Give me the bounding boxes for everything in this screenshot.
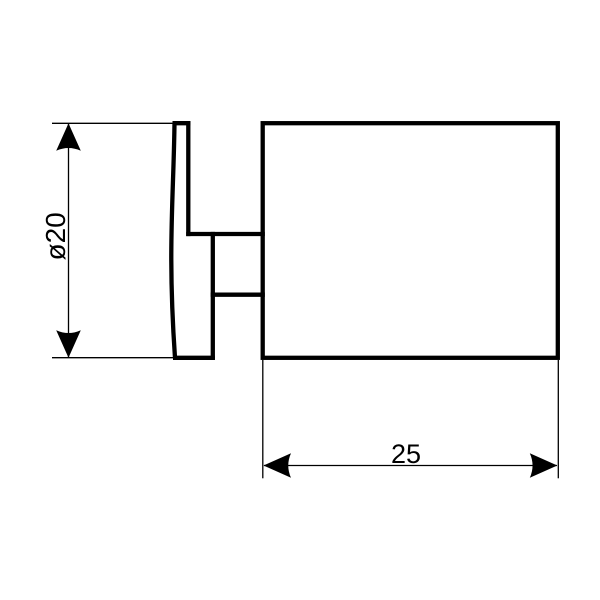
arrowhead right (25 dimension) (530, 453, 558, 478)
knob upper right edge (186, 121, 190, 236)
extension line left (25 dimension) (262, 360, 264, 478)
extension line right (25 dimension) (557, 360, 559, 478)
knob bottom edge (173, 356, 215, 360)
cylinder body rectangle (263, 123, 558, 358)
extension line bottom (o20 dimension) (52, 357, 215, 359)
knob lower right edge (211, 232, 215, 360)
extension line top (o20 dimension) (52, 122, 190, 124)
svg-text:25: 25 (391, 439, 421, 469)
arrowhead up (o20 top) (56, 123, 81, 151)
dimension line o20 (68, 124, 70, 357)
knob left curved edge (171, 123, 175, 358)
stem bottom edge (211, 293, 265, 297)
arrowhead left (25 dimension) (264, 453, 292, 478)
knob top edge (173, 121, 191, 125)
stem top edge (186, 232, 265, 236)
svg-text:ø20: ø20 (40, 212, 71, 260)
arrowhead down (o20 bottom) (56, 330, 81, 358)
dimension line 25 (264, 465, 557, 467)
